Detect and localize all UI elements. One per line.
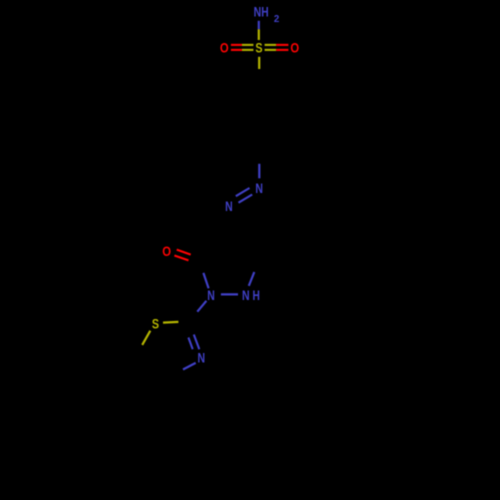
bond S1=O right, upper line olive half — [265, 44, 277, 46]
bond C3-N1(pyrazolone) blue half — [203, 273, 208, 288]
bond S1-C1(benzene) olive half — [258, 57, 260, 69]
bond N2-C5 pyrazolone blue half — [249, 272, 255, 286]
svg-text:O: O — [290, 39, 299, 55]
bond S(thiazole)-C2 olive half — [163, 321, 178, 324]
svg-text:O: O — [220, 39, 229, 55]
svg-text:N: N — [255, 180, 263, 196]
bond S1=O right, lower line olive half — [265, 49, 277, 51]
svg-text:N: N — [254, 4, 262, 20]
svg-text:H: H — [253, 287, 260, 303]
svg-text:S: S — [152, 315, 159, 331]
bond C2=N3 thiazole, inner line blue half — [188, 338, 192, 350]
svg-text:S: S — [255, 39, 262, 55]
svg-text:O: O — [162, 243, 171, 259]
bond N1-N2 pyrazolone (blue) — [221, 293, 238, 295]
svg-text:N: N — [198, 349, 206, 365]
bond S1-N(H2) upper half (blue) — [258, 21, 260, 30]
bond N3-C4 thiazole blue half — [183, 363, 196, 370]
bond C4(benzene)-N(azo) blue half — [258, 164, 260, 179]
bond S1-N(H2) lower half (olive) — [258, 29, 260, 40]
svg-text:N: N — [242, 287, 250, 303]
svg-text:2: 2 — [274, 13, 280, 25]
svg-text:N: N — [207, 287, 215, 303]
bond N=N azo, upper line — [236, 188, 250, 196]
bond S1=O right, lower line red half — [276, 49, 288, 51]
bond S(thiazole)-C5 olive half — [142, 331, 150, 345]
svg-text:H: H — [261, 4, 268, 20]
bond C3=O carbonyl, lower line red half — [174, 256, 188, 261]
bond S1=O right, upper line red half — [276, 44, 288, 46]
bond S1=O left, upper line olive half — [242, 44, 253, 46]
bond S1=O left, lower line olive half — [242, 49, 253, 51]
bond C2=N3 thiazole, main line blue half — [194, 335, 200, 350]
bond S1=O left, upper line red half — [231, 44, 242, 46]
bond N1(pyrazolone)-C2(thiazole) blue half — [197, 301, 206, 312]
bond N=N azo, lower line — [239, 195, 253, 203]
bond S1=O left, lower line red half — [231, 49, 242, 51]
svg-text:N: N — [225, 198, 233, 214]
bond C3=O carbonyl, upper line red half — [177, 250, 191, 255]
